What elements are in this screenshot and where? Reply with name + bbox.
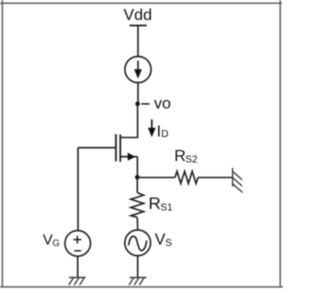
ground G1 (below VG): [69, 278, 86, 286]
svg-text:S2: S2: [185, 155, 198, 166]
svg-text:vo: vo: [154, 96, 171, 113]
transistor Q1 (NMOS): [116, 134, 137, 162]
node S junction dot: [135, 175, 140, 180]
power supply Vdd bar: [129, 25, 146, 27]
resistor RS2: [175, 171, 198, 183]
resistor RS1: [131, 193, 144, 218]
wire gate lead to Q1: [78, 147, 115, 149]
wire node vo to drain of Q1: [120, 104, 137, 138]
wire source VS to ground G2: [137, 256, 139, 278]
ground G3 (right, rotated): [233, 168, 243, 193]
wire vo tick: [141, 103, 149, 105]
wire gate of Q1 down to source VG: [77, 148, 79, 231]
svg-text:R: R: [174, 148, 186, 165]
wire Vdd bar to current source I1: [137, 26, 139, 57]
current source I1: [125, 56, 151, 82]
wire resistor RS1 to source VS: [136, 217, 138, 230]
current arrow ID: [148, 119, 156, 137]
resistor RS2 value label: [174, 148, 198, 166]
svg-text:S: S: [165, 238, 172, 249]
net Vdd label: [124, 7, 152, 24]
wire source VG to ground G1: [77, 256, 79, 277]
DC source VG: [65, 231, 91, 257]
current label ID: [157, 123, 169, 140]
svg-text:Vdd: Vdd: [124, 7, 152, 24]
wire source of Q1 to node S: [136, 157, 138, 178]
wire node S to resistor RS2: [137, 177, 175, 179]
AC source VS: [125, 230, 151, 256]
svg-text:S1: S1: [160, 202, 173, 213]
resistor RS1 value label: [149, 194, 174, 214]
wire node S to resistor RS1: [136, 178, 138, 193]
svg-text:R: R: [149, 194, 161, 213]
svg-text:D: D: [161, 129, 168, 140]
svg-text:V: V: [155, 232, 166, 249]
wire resistor RS2 to ground G3: [198, 177, 232, 179]
ground G2 (below VS): [129, 278, 146, 286]
source VG label: [43, 232, 60, 249]
node vo label: [154, 96, 171, 113]
source VS label: [155, 232, 172, 249]
wire current source I1 to node vo: [137, 83, 139, 104]
node vo junction dot: [135, 102, 140, 107]
svg-text:G: G: [52, 238, 59, 249]
svg-text:V: V: [43, 232, 53, 249]
